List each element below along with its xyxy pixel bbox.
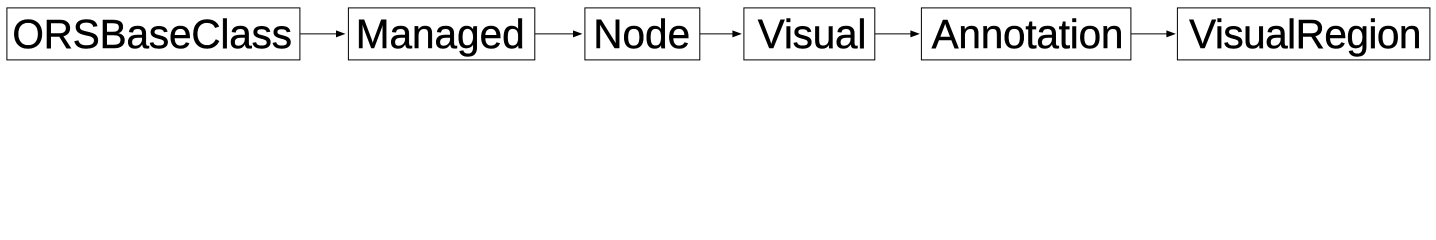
node Managed	[348, 8, 534, 60]
node ORSBaseClass	[7, 8, 300, 60]
wire Managed to Node	[535, 31, 581, 37]
wire ORSBaseClass to Managed	[300, 31, 344, 37]
svg-text:Visual: Visual	[758, 11, 866, 57]
node Annotation	[921, 8, 1131, 60]
wire Annotation to VisualRegion	[1131, 31, 1175, 37]
wire Visual to Annotation	[875, 31, 919, 37]
svg-text:Annotation: Annotation	[932, 11, 1124, 57]
node VisualRegion	[1177, 8, 1430, 60]
svg-text:Managed: Managed	[356, 11, 525, 57]
node Visual	[744, 8, 875, 60]
wire Node to Visual	[700, 31, 741, 37]
node Node	[585, 8, 700, 60]
svg-text:VisualRegion: VisualRegion	[1189, 11, 1421, 57]
svg-text:ORSBaseClass: ORSBaseClass	[12, 11, 292, 57]
svg-text:Node: Node	[593, 11, 690, 57]
